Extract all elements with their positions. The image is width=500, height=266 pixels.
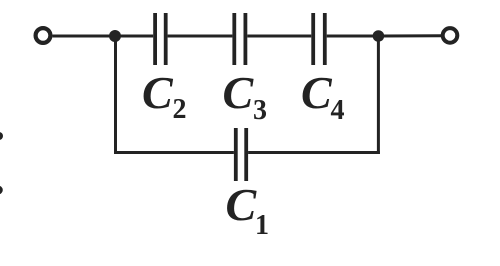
wire: node A down to bottom branch xyxy=(114,36,117,154)
svg-text:C: C xyxy=(223,67,255,118)
label C4 xyxy=(301,67,345,126)
wire: C4 to node B xyxy=(327,35,378,38)
label C3 xyxy=(223,67,268,126)
label C1 xyxy=(226,179,270,241)
svg-text:C: C xyxy=(301,67,333,118)
capacitor C1 xyxy=(234,128,248,181)
terminal T1 (left open circle) xyxy=(36,28,51,43)
wire: C2 to C3 xyxy=(168,35,233,38)
svg-text:C: C xyxy=(142,67,174,118)
terminal T2 (right open circle) xyxy=(443,28,458,43)
svg-text:1: 1 xyxy=(255,210,269,241)
svg-text:C: C xyxy=(226,179,258,230)
wire: left terminal to node A xyxy=(53,35,113,38)
capacitor C4 xyxy=(311,13,326,65)
svg-text:4: 4 xyxy=(331,95,345,126)
capacitor C2 xyxy=(153,13,167,65)
wire: bottom branch left segment xyxy=(114,151,234,154)
node B (right junction dot) xyxy=(373,30,385,42)
wire: node B down to bottom branch xyxy=(377,36,380,154)
wire: node B to right terminal xyxy=(378,34,441,37)
svg-text:3: 3 xyxy=(253,95,267,126)
bullet dot (cropped, lower left edge) xyxy=(0,186,3,195)
wire: node A to C2 left plate xyxy=(115,35,153,38)
capacitor C3 xyxy=(232,13,247,65)
svg-text:2: 2 xyxy=(173,94,187,125)
wire: bottom branch right segment xyxy=(248,151,380,154)
wire: C3 to C4 xyxy=(247,35,311,38)
node A (left junction dot) xyxy=(109,30,121,42)
label C2 xyxy=(142,67,187,125)
bullet dot (cropped, upper left edge) xyxy=(0,132,3,140)
